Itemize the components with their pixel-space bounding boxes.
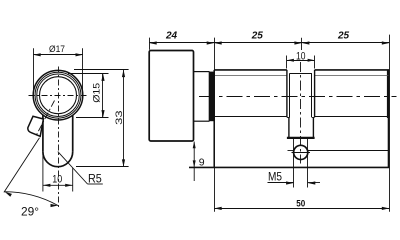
svg-text:50: 50 (296, 199, 305, 210)
cam slot left wall inner (289, 73, 291, 117)
body top edge left segment (214, 69, 287, 71)
neck flange ring (209, 72, 214, 122)
svg-text:Ø17: Ø17 (49, 44, 65, 55)
svg-text:29°: 29° (21, 206, 39, 218)
svg-text:24: 24 (165, 30, 178, 41)
cam tab (28, 116, 44, 136)
dimension Ø17 (33, 48, 83, 91)
body left face (213, 70, 215, 167)
cam slot right wall lower (312, 117, 314, 137)
profile stem right edge (72, 115, 74, 152)
body bottom edge (189, 166, 389, 168)
thumbturn knob (149, 51, 193, 142)
slot far edge line (290, 73, 312, 75)
M5 hole circle (294, 145, 308, 159)
svg-text:Ø15: Ø15 (92, 83, 103, 103)
svg-text:25: 25 (337, 30, 350, 41)
slot wall tick left (287, 117, 290, 119)
dimension 9 (193, 142, 195, 181)
chamfer ring outer (35, 72, 81, 118)
svg-text:9: 9 (199, 157, 205, 169)
long extension line between knob and body (214, 38, 216, 212)
svg-text:10: 10 (52, 173, 62, 185)
top chamfer line right (315, 75, 389, 77)
profile tangency line right (315, 116, 389, 118)
dimension 25 right (302, 42, 389, 44)
dimension 10 (slot width) (287, 56, 315, 69)
knob neck bottom edge (194, 120, 210, 122)
cam slot floor (287, 137, 315, 139)
dimension 50 (214, 208, 389, 210)
svg-text:25: 25 (251, 30, 264, 41)
cam axis centerline at 29 degrees (37, 101, 55, 135)
M5 hole horizontal tick (292, 152, 311, 154)
dimension Ø15 (68, 73, 109, 117)
horizontal centerline of front view (29, 95, 89, 97)
inner bore circle (40, 77, 77, 114)
svg-text:10: 10 (296, 50, 306, 62)
dimension 25 left (214, 42, 302, 44)
leader R5 (58, 152, 88, 184)
R5 tangency line right (308, 150, 389, 152)
top chamfer line left (214, 75, 287, 77)
cam angle reference line (4, 138, 40, 193)
dimension M5 (268, 138, 321, 188)
vertical centerline of front view (58, 67, 60, 208)
body right face thick upper segment (387, 70, 390, 118)
cam slot left wall lower (288, 117, 290, 137)
chamfer ring inner (Ø15) (37, 74, 80, 117)
cylinder outer circle Ø17 (33, 70, 83, 120)
angle dimension 29 degrees arc (5, 192, 58, 206)
cam slot right wall inner (311, 73, 313, 117)
R5 tangency line near slot (288, 150, 294, 152)
slot vertical centerline (300, 62, 302, 164)
cam slot right wall outer (314, 70, 316, 117)
svg-text:33: 33 (114, 110, 125, 125)
centerline of side view (199, 96, 397, 98)
slot wall tick right (312, 117, 315, 119)
dimension 10 (stem width) (43, 153, 73, 192)
svg-text:M5: M5 (268, 169, 282, 183)
stem bottom arc R5 (43, 152, 73, 167)
dimension 24 (149, 38, 214, 50)
body top edge right segment (315, 69, 390, 71)
knob neck top edge (194, 71, 210, 73)
divider extension for 25/25 (301, 38, 303, 50)
profile tangency line left (214, 116, 287, 118)
body right face (388, 70, 390, 167)
profile stem left edge (42, 115, 44, 152)
dimension 33 (74, 70, 129, 167)
svg-text:R5: R5 (88, 172, 102, 186)
cam slot left wall outer (286, 70, 288, 117)
right extension line (389, 35, 391, 212)
